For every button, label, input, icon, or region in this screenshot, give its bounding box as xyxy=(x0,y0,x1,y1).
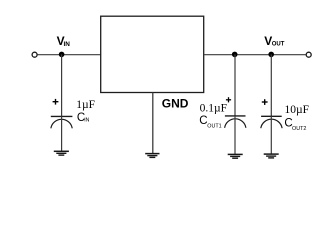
svg-text:OUT1: OUT1 xyxy=(207,124,221,130)
wire: VIN node down to CIN xyxy=(61,54,63,116)
svg-text:IN: IN xyxy=(64,41,71,48)
svg-text:1µF: 1µF xyxy=(76,99,95,111)
svg-text:GND: GND xyxy=(162,97,189,111)
wire: COUT1 to ground xyxy=(234,116,236,154)
node VIN junction dot xyxy=(59,52,65,58)
ground symbol (COUT2) xyxy=(264,154,279,158)
svg-text:OUT2: OUT2 xyxy=(292,126,306,132)
ground symbol (regulator GND) xyxy=(145,154,159,158)
label COUT2 xyxy=(284,118,306,132)
ground symbol (CIN) xyxy=(54,151,69,155)
wire: COUT2 to ground xyxy=(270,116,272,154)
wire: CIN to ground xyxy=(61,116,63,151)
polarity + of COUT1 xyxy=(226,97,231,102)
label CIN xyxy=(77,112,90,124)
output terminal (open circle) xyxy=(306,52,311,57)
label VIN xyxy=(57,34,71,48)
polarity + of CIN xyxy=(53,99,59,105)
capacitor CIN (polarized) xyxy=(51,116,73,128)
input terminal (open circle) xyxy=(32,52,37,57)
node VOUT junction dot xyxy=(268,52,274,58)
wire: input terminal to regulator box xyxy=(38,54,101,56)
svg-text:OUT: OUT xyxy=(272,41,285,47)
svg-text:0.1µF: 0.1µF xyxy=(200,102,227,114)
wire: VOUT node down to COUT2 xyxy=(270,54,272,116)
regulator box U1 xyxy=(101,16,204,92)
wire: junction down to COUT1 xyxy=(234,54,236,115)
node junction dot at COUT1 xyxy=(232,52,238,58)
wire: regulator GND pin down xyxy=(152,93,154,154)
svg-text:IN: IN xyxy=(84,117,89,123)
label COUT1 xyxy=(199,115,221,129)
capacitor COUT1 (polarized) xyxy=(225,116,246,128)
wire: regulator output to output terminal xyxy=(204,54,306,56)
capacitor COUT2 (polarized) xyxy=(261,116,282,128)
ground symbol (COUT1) xyxy=(228,154,243,158)
polarity + of COUT2 xyxy=(262,99,268,105)
svg-text:10µF: 10µF xyxy=(285,104,310,116)
label VOUT xyxy=(264,34,285,48)
